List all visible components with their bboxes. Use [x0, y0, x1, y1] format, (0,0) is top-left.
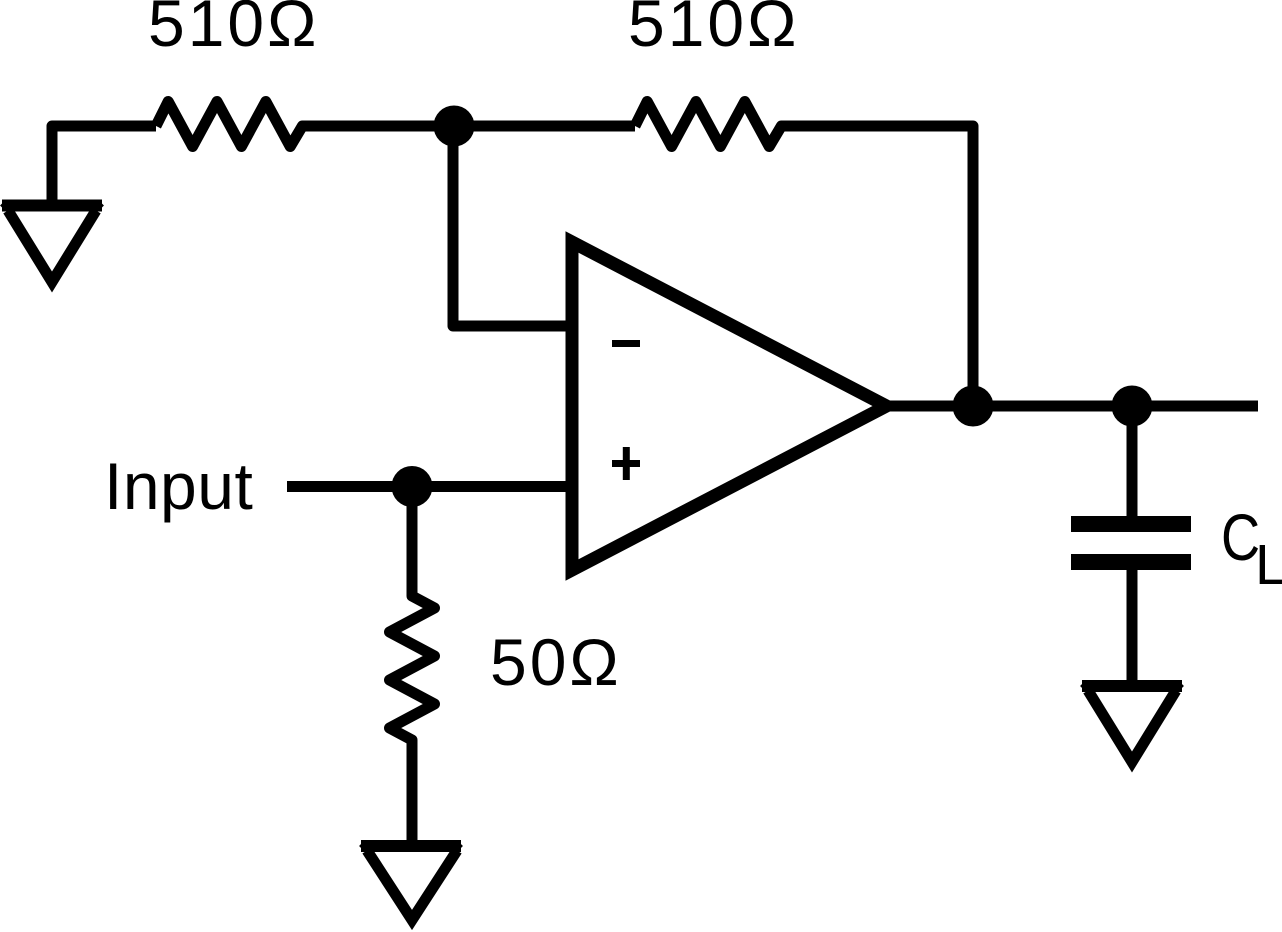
svg-text:510Ω: 510Ω	[148, 0, 319, 60]
svg-text:L: L	[1255, 533, 1282, 597]
svg-text:Input: Input	[104, 449, 253, 523]
svg-text:50Ω: 50Ω	[490, 625, 622, 699]
svg-text:510Ω: 510Ω	[628, 0, 799, 60]
